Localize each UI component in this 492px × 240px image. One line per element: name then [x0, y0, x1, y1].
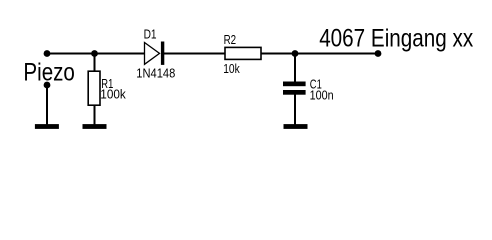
node junction R1: [91, 50, 98, 57]
diode D1: [145, 42, 165, 65]
ground (R1): [83, 124, 107, 129]
svg-text:10k: 10k: [223, 62, 240, 76]
node piezo bottom terminal: [44, 82, 51, 89]
wire: [294, 94, 296, 125]
wire: [164, 53, 226, 55]
node junction C1: [292, 50, 299, 57]
capacitor C1: [283, 82, 306, 95]
node output terminal: [375, 50, 382, 57]
svg-text:D1: D1: [144, 27, 157, 41]
wire: [94, 105, 96, 125]
resistor R1: [88, 71, 100, 105]
svg-text:4067 Eingang xx: 4067 Eingang xx: [319, 25, 473, 53]
wire: [261, 53, 379, 55]
svg-text:R2: R2: [224, 33, 237, 47]
wire: [94, 54, 96, 73]
wire: [294, 54, 296, 83]
wire: [47, 53, 145, 55]
ground (C1): [284, 124, 308, 129]
ground (piezo): [35, 124, 59, 129]
svg-text:Piezo: Piezo: [23, 58, 75, 86]
resistor R2: [225, 47, 261, 59]
wire: [46, 85, 48, 125]
node piezo top terminal: [44, 50, 51, 57]
svg-text:100k: 100k: [100, 88, 126, 102]
svg-text:100n: 100n: [310, 88, 334, 102]
svg-text:1N4148: 1N4148: [136, 66, 175, 80]
